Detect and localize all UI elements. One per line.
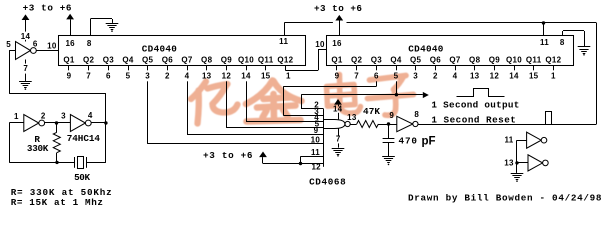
node row4 from U1 pin: [246, 121, 324, 123]
node rows 11/12 tied to +V: [301, 156, 324, 158]
inverter U3C 74HC14 pins 3/4: [70, 115, 85, 132]
svg-text:11: 11: [504, 136, 513, 145]
svg-text:2: 2: [433, 72, 438, 81]
svg-text:11: 11: [540, 38, 549, 47]
svg-text:2: 2: [41, 112, 46, 121]
svg-text:8: 8: [414, 110, 419, 119]
supply arrow U2 pin 16: [335, 15, 343, 21]
svg-text:Q9: Q9: [221, 56, 233, 65]
inverter U3D pins 9/8: [397, 116, 413, 131]
svg-text:Q1: Q1: [331, 56, 343, 65]
svg-text:13: 13: [470, 72, 480, 81]
wire reset right-edge vertical: [596, 23, 598, 124]
CD4068 input bus: [323, 109, 325, 167]
wire U4 pin14 stem lower: [338, 113, 340, 120]
IC U1 CD4040 body: [59, 36, 306, 66]
svg-text:CD4068: CD4068: [309, 176, 346, 187]
wire spare inputs bus: [516, 140, 518, 173]
wire pin2 to pin3: [45, 122, 71, 124]
svg-text:Q5: Q5: [142, 56, 154, 65]
svg-text:Q2: Q2: [351, 56, 363, 65]
svg-text:CD4040: CD4040: [142, 44, 177, 55]
spare inverter U3E pin 11: [517, 140, 527, 142]
supply arrow 74HC14 pin 14: [22, 14, 30, 20]
wire U4 pin7 stem: [338, 129, 340, 136]
junction row11/12: [299, 162, 302, 165]
svg-text:Q1: Q1: [63, 56, 75, 65]
node row10 from U1 pin: [148, 143, 324, 145]
junction U2 Q4 tap: [395, 93, 398, 96]
svg-text:7: 7: [23, 64, 28, 73]
crystal XTAL 50K: [74, 157, 76, 168]
svg-text:12: 12: [222, 71, 232, 80]
svg-text:+3 to +6: +3 to +6: [314, 3, 362, 14]
U1 pin stubs and pin numbers: [68, 66, 70, 71]
ground 74HC14 pin 7: [19, 81, 32, 83]
wire reset output row: [418, 124, 597, 126]
svg-text:Q10: Q10: [238, 56, 254, 65]
svg-text:13: 13: [504, 158, 514, 167]
node row3 from U2 Q3: [283, 115, 323, 117]
svg-text:7: 7: [354, 72, 359, 81]
svg-text:3: 3: [413, 72, 418, 81]
node row9 from U1 pin: [187, 134, 324, 136]
svg-text:16: 16: [332, 39, 342, 48]
svg-text:Q7: Q7: [449, 56, 461, 65]
svg-text:50K: 50K: [74, 172, 90, 183]
junction reset at U2 pin11: [542, 21, 545, 24]
wire U1 pin16 stem: [70, 19, 72, 35]
junction resistor top: [55, 121, 58, 124]
svg-text:CD4040: CD4040: [408, 44, 443, 55]
ground U2 pin 8: [578, 46, 591, 48]
ground U4 pin 7: [332, 148, 345, 150]
wire loop bottom left: [9, 162, 74, 164]
wire U2 pin8 right: [563, 30, 584, 32]
IC U2 CD4040 body: [327, 36, 574, 66]
svg-text:10: 10: [47, 41, 57, 50]
wire U4 out to R2: [350, 124, 357, 126]
svg-text:+3 to +6: +3 to +6: [203, 150, 253, 161]
junction C1 top: [387, 122, 390, 125]
svg-text:15: 15: [529, 72, 539, 81]
wire Q12 to U2 clk horizontal: [285, 70, 318, 72]
svg-text:8: 8: [560, 38, 565, 47]
pulse symbol narrow (reset): [529, 112, 567, 125]
svg-text:470: 470: [399, 136, 418, 147]
svg-text:Q11: Q11: [258, 56, 274, 65]
svg-text:Q6: Q6: [430, 56, 442, 65]
wire U2 pin8 up: [562, 31, 564, 36]
wire U2 clk vertical: [318, 49, 320, 70]
spare inverter U3F pin 13: [517, 162, 528, 164]
svg-text:6: 6: [33, 39, 38, 48]
svg-text:9: 9: [67, 71, 72, 80]
svg-text:pF: pF: [422, 135, 436, 147]
capacitor C1 470 pF: [388, 124, 390, 139]
wire U4 pin14 stem: [338, 105, 340, 107]
wire U2 Q3 down: [376, 81, 378, 86]
wire feedback down to osc output: [105, 93, 107, 123]
ground C1: [382, 156, 395, 158]
wire R2 to inverter: [378, 124, 396, 126]
svg-text:14: 14: [21, 32, 31, 41]
svg-text:12: 12: [490, 72, 500, 81]
wire loop left vertical: [9, 123, 11, 162]
wire U2 pin8 down: [584, 31, 586, 47]
svg-text:2: 2: [165, 71, 170, 80]
wire pin4 output: [91, 122, 106, 124]
wire into U2 pin 10: [318, 49, 327, 51]
svg-text:Q9: Q9: [489, 56, 501, 65]
svg-text:8: 8: [87, 39, 92, 48]
svg-text:1: 1: [14, 112, 19, 121]
U2 pin stubs and pin numbers: [336, 66, 338, 71]
supply arrow U1 pin 16: [66, 14, 74, 20]
svg-text:5: 5: [6, 40, 11, 49]
wire pin14 stem: [25, 20, 27, 32]
wire U1 pin11 stem up: [284, 23, 286, 36]
wire reset line to right edge: [544, 22, 597, 24]
resistor R 330K: [56, 123, 58, 132]
wire loop bottom right: [86, 162, 106, 164]
wire pin7 stem: [25, 60, 27, 64]
svg-text:Q8: Q8: [201, 56, 213, 65]
pulse symbol wide (1 second output): [457, 89, 505, 97]
svg-text:1: 1: [551, 72, 556, 81]
svg-text:1 Second Reset: 1 Second Reset: [431, 114, 516, 125]
wire pin1 input: [9, 122, 24, 124]
svg-text:14: 14: [241, 71, 251, 80]
arrow 1 Second output: [423, 92, 429, 98]
wire U4 pin7 stem lower: [338, 143, 340, 147]
svg-text:74HC14: 74HC14: [67, 133, 101, 144]
wire U1 pin8 right: [90, 18, 112, 20]
resistor R2 47K: [357, 121, 379, 128]
svg-text:15: 15: [261, 71, 271, 80]
svg-text:6: 6: [106, 71, 111, 80]
svg-text:5: 5: [126, 71, 131, 80]
svg-text:16: 16: [65, 39, 75, 48]
node row2 / 1-second-output net: [301, 108, 323, 110]
inverter U3A 74HC14 pins 5/6: [16, 42, 31, 60]
wire U1 pin8 down: [112, 19, 114, 23]
supply arrow CD4068 pins 11/12: [259, 152, 267, 158]
svg-text:9: 9: [314, 126, 319, 135]
svg-text:Q3: Q3: [103, 56, 115, 65]
wire feedback bottom: [9, 93, 106, 95]
svg-text:Q7: Q7: [181, 56, 193, 65]
wire pin14 stem lower: [25, 40, 27, 42]
svg-text:+3 to +6: +3 to +6: [23, 3, 72, 14]
svg-text:10: 10: [311, 135, 321, 144]
svg-text:1 Second output: 1 Second output: [431, 99, 519, 110]
svg-text:47K: 47K: [363, 106, 380, 117]
svg-text:R= 15K at 1 Mhz: R= 15K at 1 Mhz: [11, 197, 103, 208]
wire U2 Q4 down: [396, 81, 398, 94]
svg-text:12: 12: [311, 163, 321, 172]
svg-text:Q10: Q10: [506, 56, 522, 65]
NAND gate U4 CD4068: [324, 120, 345, 129]
svg-text:Q12: Q12: [545, 56, 561, 65]
junction osc output: [104, 121, 107, 124]
wire U2 pin11 stem: [543, 23, 545, 36]
svg-text:Q12: Q12: [277, 56, 293, 65]
svg-text:Q3: Q3: [371, 56, 383, 65]
svg-text:7: 7: [86, 71, 91, 80]
svg-text:4: 4: [453, 72, 458, 81]
wire reset line right of arrow: [347, 22, 544, 24]
svg-text:3: 3: [145, 71, 150, 80]
junction resistor bottom: [55, 161, 58, 164]
svg-text:11: 11: [279, 37, 288, 46]
U4 output bubble: [345, 121, 350, 126]
wire Q12 stub: [285, 69, 287, 71]
svg-text:Q4: Q4: [390, 56, 402, 65]
wire loop right vertical: [105, 123, 107, 162]
svg-text:1: 1: [286, 71, 291, 80]
svg-text:11: 11: [311, 148, 320, 157]
wire pin7 stem lower: [25, 74, 27, 81]
svg-text:Drawn by Bill Bowden - 04/24/9: Drawn by Bill Bowden - 04/24/98: [408, 192, 602, 203]
inverter U3B 74HC14 pins 1/2: [24, 115, 39, 132]
svg-text:Q11: Q11: [526, 56, 542, 65]
svg-text:3: 3: [61, 112, 66, 121]
svg-text:Q5: Q5: [410, 56, 422, 65]
wire feedback left vertical: [9, 51, 11, 94]
svg-text:330K: 330K: [27, 143, 49, 154]
ground spare inverters: [511, 173, 524, 175]
wire 1 Second Reset row: [419, 124, 596, 126]
wire pin5 input: [9, 50, 15, 52]
svg-text:Q6: Q6: [162, 56, 174, 65]
supply arrow U4 pin 14: [334, 99, 342, 105]
svg-text:Q2: Q2: [83, 56, 95, 65]
svg-text:Q8: Q8: [469, 56, 481, 65]
svg-text:4: 4: [185, 71, 190, 80]
svg-text:4: 4: [88, 111, 93, 120]
svg-text:14: 14: [509, 72, 519, 81]
ground U1 pin 8: [106, 23, 119, 25]
node row5 from U1 pin: [226, 127, 323, 129]
svg-text:10: 10: [315, 40, 325, 49]
svg-text:Q4: Q4: [122, 56, 134, 65]
wire U2 pin16 stem: [339, 21, 341, 36]
wire U1 pin8 up: [90, 19, 92, 36]
wire reset line left of arrow: [284, 22, 333, 24]
svg-text:7: 7: [336, 135, 341, 144]
junction spare inputs: [515, 161, 518, 164]
wire pin6 to U1 pin10: [36, 50, 58, 52]
